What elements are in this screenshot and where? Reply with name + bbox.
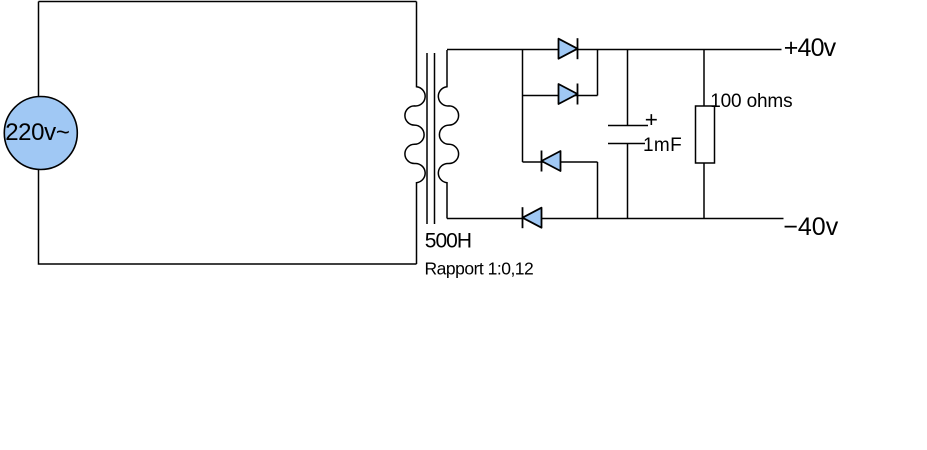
bottom wire -40v rail (447, 218, 784, 220)
diode D4 (bottom, points left) (523, 207, 542, 228)
transformer core (427, 53, 435, 224)
diode D3 (row3, points left) (542, 151, 561, 172)
AC source V1 circle (4, 97, 77, 170)
svg-text:−40v: −40v (783, 213, 838, 241)
diode D2 (row2, points right) (559, 84, 578, 105)
resistor R1 branch wires (703, 50, 705, 219)
wire: right vertical top (row1-row2) (597, 50, 599, 96)
svg-text:500H: 500H (425, 230, 471, 253)
svg-text:+: + (645, 107, 658, 132)
transformer secondary winding L2 (438, 50, 458, 219)
svg-text:1mF: 1mF (643, 135, 682, 156)
transformer primary winding L1 (405, 2, 425, 265)
wire: right vertical bottom (row3-bottom) (597, 162, 599, 219)
diode D1 (top, points right) (559, 38, 578, 59)
svg-text:220v~: 220v~ (5, 119, 69, 146)
wire: row 2 horizontal (523, 95, 598, 97)
resistor R1 body (696, 106, 715, 163)
svg-text:Rapport 1:0,12: Rapport 1:0,12 (425, 259, 534, 279)
capacitor C1 branch wires (627, 50, 629, 219)
wire: row 3 horizontal (523, 161, 598, 163)
svg-text:+40v: +40v (784, 34, 837, 62)
capacitor C1 plates (608, 126, 648, 144)
wire: left bridge vertical (522, 50, 524, 163)
top wire +40v rail (447, 49, 782, 51)
primary loop rectangle (left circuit) (39, 2, 417, 265)
svg-text:100 ohms: 100 ohms (710, 91, 792, 112)
